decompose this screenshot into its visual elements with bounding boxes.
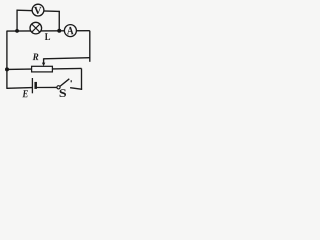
wire: resistor branch left <box>7 68 32 70</box>
label E <box>22 90 27 97</box>
battery E: long plate <box>31 78 33 93</box>
rheostat slider arrowhead <box>42 63 45 67</box>
wire: right lower vertical to bottom row <box>81 68 83 90</box>
wire: left main vertical <box>6 31 8 89</box>
voltmeter U-V circle <box>32 4 44 16</box>
wire: voltmeter branch left vertical drop <box>16 10 18 31</box>
wire: slider arrow shaft <box>43 58 45 63</box>
wire: resistor branch right <box>52 67 81 70</box>
circuit schematic: voltage-divider rheostat circuit with lamp, voltmeter, ammeter, battery, switch <box>0 0 94 102</box>
background <box>0 0 94 102</box>
wire: voltmeter branch right vertical drop <box>58 11 60 31</box>
wire: slider feed horizontal to rheostat arrow <box>44 58 90 59</box>
resistor R box (rheostat) <box>32 66 53 72</box>
wire: bottom row right segment (switch to corner) <box>70 88 82 90</box>
lamp L circle with cross <box>30 22 42 34</box>
wire: lamp/ammeter branch horizontal <box>7 30 90 32</box>
label L <box>45 33 50 40</box>
wire: bottom row middle segment (battery to switch) <box>36 86 57 88</box>
label R <box>33 54 39 61</box>
switch S: lever <box>60 79 69 87</box>
wire: bottom row left segment (corner to battery) <box>7 87 33 90</box>
wire: top voltmeter branch horizontal <box>17 10 60 11</box>
ammeter A circle <box>64 25 76 37</box>
switch S: contact tick <box>70 80 72 82</box>
label S <box>60 89 66 97</box>
wire: right upper vertical from ammeter down <box>89 31 91 62</box>
battery E: short thick plate <box>34 82 37 89</box>
node: junction dot left of lamp <box>15 29 19 33</box>
node: junction dot right of lamp <box>57 29 61 33</box>
switch S: pivot circle <box>57 86 60 89</box>
node: junction dot on left wire at resistor branch <box>5 67 9 71</box>
